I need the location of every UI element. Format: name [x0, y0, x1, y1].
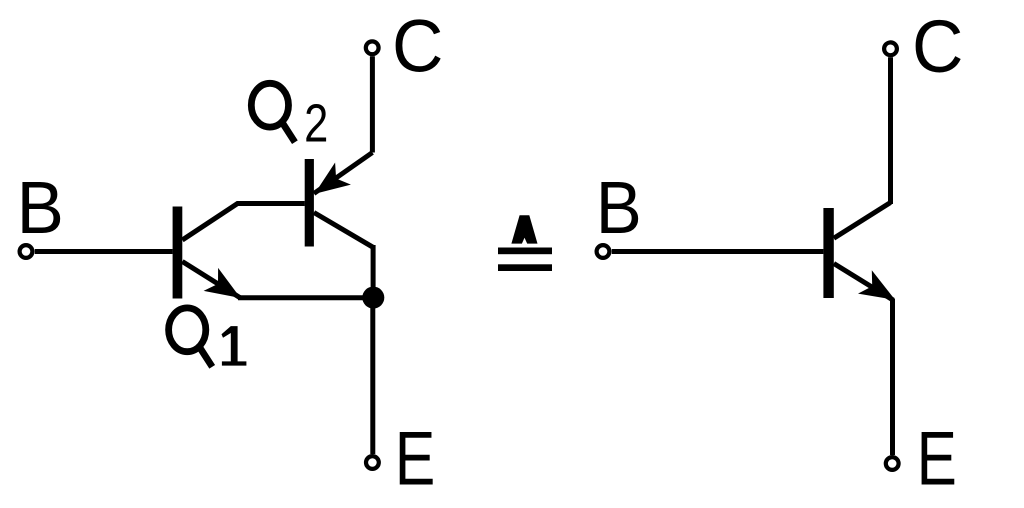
emitter arrow (right): [858, 270, 895, 300]
wire Q1 emitter to junction: [238, 295, 373, 300]
equivalence symbol (estimates, U+2259): [498, 215, 552, 271]
Q2 emitter arrow: [315, 163, 351, 194]
node E (right) terminal circle: [886, 457, 899, 470]
wire collector diagonal (right): [834, 203, 891, 239]
node B (right) terminal circle: [597, 245, 610, 258]
label Q1: [169, 308, 247, 367]
svg-text:B: B: [596, 167, 642, 250]
svg-text:E: E: [917, 416, 957, 501]
label Q2: [251, 83, 328, 153]
wire vertical to C terminal (right): [888, 57, 893, 204]
transistor Q2 base bar: [305, 159, 314, 247]
wire Q1 emitter diagonal: [182, 262, 240, 299]
wire Q2 emitter diagonal from C: [314, 153, 373, 194]
node C (right) terminal circle: [884, 42, 897, 55]
svg-text:E: E: [395, 415, 436, 501]
junction dot: [362, 287, 384, 309]
wire Q2 collector vertical to junction: [371, 245, 376, 298]
node C (left) terminal circle: [366, 41, 379, 54]
node E (left) terminal circle: [366, 456, 379, 469]
svg-text:C: C: [392, 5, 443, 88]
svg-text:2: 2: [304, 94, 328, 153]
Q1 emitter arrow: [204, 268, 241, 298]
wire B to base (right): [612, 249, 824, 254]
wire Q2 collector diagonal: [314, 213, 373, 248]
wire emitter vertical to E terminal (right): [890, 299, 895, 455]
svg-text:B: B: [17, 167, 64, 250]
node B (left) terminal circle: [20, 245, 33, 258]
svg-text:C: C: [912, 6, 963, 89]
wire junction to E terminal: [370, 298, 375, 455]
transistor base bar (right): [823, 208, 833, 298]
wire B to Q1 base: [35, 249, 173, 254]
wire vertical to C terminal: [370, 56, 375, 152]
transistor Q1 base bar: [173, 207, 183, 299]
wire Q1 collector to Q2 base: [182, 204, 304, 241]
wire emitter diagonal (right): [834, 264, 894, 301]
